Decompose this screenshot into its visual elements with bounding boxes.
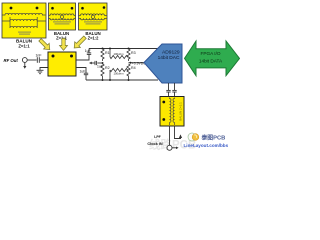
capacitor C1 1nF (37, 57, 39, 63)
node dot bottom R2 (102, 79, 104, 81)
balun option box B2 (49, 3, 76, 30)
svg-text:100ohm: 100ohm (113, 72, 124, 76)
port P2 clock in (167, 145, 176, 150)
clock pin wires from DAC (169, 83, 175, 90)
arrow from B2 to main balun (60, 39, 68, 51)
svg-text:R4: R4 (131, 66, 136, 70)
svg-text:泰图PCB: 泰图PCB (201, 133, 226, 141)
top rail wire (89, 48, 158, 50)
svg-text:BALUN Z=1:1: BALUN Z=1:1 (179, 102, 183, 121)
wire C1 to balun T1 (40, 59, 48, 61)
svg-text:100ohm: 100ohm (113, 52, 124, 56)
node dot mid R1/R2 (102, 62, 104, 64)
wire RF Out to C1 (27, 59, 36, 61)
capacitor C2 1uF (87, 53, 91, 55)
wire T1 lower-left to ground (40, 68, 48, 71)
svg-text:1nF: 1nF (35, 54, 41, 58)
resistor R1 (101, 49, 104, 61)
wire T1 lower-right to C3 (76, 68, 86, 74)
svg-text:LineLayout.com/bbs: LineLayout.com/bbs (184, 143, 229, 148)
bottom rail wire (86, 79, 158, 81)
capacitor C3 1uF (84, 73, 88, 75)
arrow from B3 to main balun (71, 34, 87, 50)
wire T2 right to termination arrow (175, 126, 181, 139)
svg-text:14bit DAC: 14bit DAC (158, 55, 180, 61)
clock balun T2 (160, 97, 184, 127)
svg-text:1uF: 1uF (79, 69, 85, 73)
svg-text:R1: R1 (105, 51, 110, 55)
capacitor C5 (166, 90, 170, 92)
label for B2 (54, 31, 69, 41)
svg-text:R2: R2 (105, 66, 110, 70)
resistor R2 (101, 64, 104, 79)
balun option box B1 (2, 3, 46, 38)
capacitor C6 (172, 90, 176, 92)
resistor R3 (127, 49, 130, 61)
svg-text:Z=1:2: Z=1:2 (88, 35, 100, 40)
svg-text:Clock IN: Clock IN (147, 142, 162, 146)
resistor R6 100ohm bottom (109, 70, 111, 80)
capacitor C4 1uF with arrow (92, 61, 103, 65)
DAC U1 AD9129 (144, 44, 182, 83)
resistor R4 (127, 64, 130, 79)
logo icon (188, 133, 199, 141)
node dot top R1 (102, 48, 104, 50)
svg-text:RF Out: RF Out (4, 58, 19, 63)
svg-text:Z=1:1: Z=1:1 (18, 43, 30, 48)
FPGA data arrow (185, 41, 240, 76)
svg-text:FPGA I/O: FPGA I/O (200, 51, 220, 56)
svg-text:1uF: 1uF (85, 49, 91, 53)
main balun T1 (48, 52, 76, 76)
balun option box B3 (79, 3, 108, 30)
resistor R5 100ohm top (109, 49, 111, 58)
wire T1 upper-right to C2 (76, 55, 89, 60)
port P1 RF Out (22, 58, 27, 67)
mid node wire to DAC (129, 62, 145, 64)
svg-text:LPF: LPF (154, 135, 160, 139)
label for B3 (85, 31, 100, 41)
svg-text:R3: R3 (131, 51, 136, 55)
svg-text:AD9129: AD9129 (162, 49, 180, 55)
svg-text:14bit DATA: 14bit DATA (199, 59, 223, 64)
ground (37, 70, 44, 73)
svg-text:1uF: 1uF (97, 65, 103, 69)
label for B1 (16, 38, 33, 48)
wire T2 to clock port (169, 126, 171, 145)
arrow from B1 to main balun (37, 37, 52, 52)
